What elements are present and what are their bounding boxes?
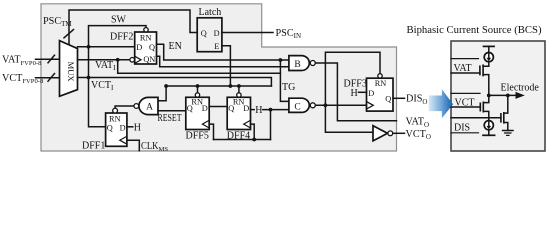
wire VAT_I branch to TG xyxy=(118,60,281,73)
wire VAT input xyxy=(36,58,60,60)
wire riser to DFF5 RN bubble xyxy=(197,86,199,93)
wire DFF5 clock drop xyxy=(209,124,213,139)
wire DFF5.D to DFF4.Q xyxy=(209,106,227,108)
bus slash on PSC_TM xyxy=(64,30,74,38)
bus slash VCT xyxy=(48,74,55,82)
bus slash VAT xyxy=(48,55,55,63)
ground symbol xyxy=(503,131,513,136)
svg-text:Q: Q xyxy=(107,124,113,133)
svg-text:RN: RN xyxy=(375,79,387,88)
wire H riser to clock row xyxy=(270,110,272,140)
node electrode junction (DIS drain) xyxy=(506,94,510,98)
svg-text:VCTI: VCTI xyxy=(91,80,114,92)
svg-text:VCTFVP0-8: VCTFVP0-8 xyxy=(2,73,44,85)
blue arrow xyxy=(429,89,453,118)
wire VAT_I (MUX to DFF2 clock) xyxy=(78,59,131,61)
svg-text:QN: QN xyxy=(143,55,155,64)
mux U-MUX xyxy=(60,41,78,97)
svg-text:DFF1: DFF1 xyxy=(82,141,105,152)
port box DIS xyxy=(451,117,501,119)
wire PSC vertical down to DFF1 Q xyxy=(89,47,106,127)
node junction H row xyxy=(269,108,273,112)
node junction DFF4 RN xyxy=(237,84,241,88)
svg-text:D: D xyxy=(243,104,249,113)
svg-text:VAT: VAT xyxy=(454,63,472,74)
current source I1 (top) xyxy=(484,46,495,61)
node junction C output xyxy=(324,103,328,107)
wire electrode node row xyxy=(489,94,517,96)
svg-text:C: C xyxy=(294,102,300,112)
wire DFF3 Q to DIS_O xyxy=(393,97,405,99)
svg-text:Biphasic Current Source (BCS): Biphasic Current Source (BCS) xyxy=(407,25,542,36)
wire DFF4.D to H to gate C lower input xyxy=(251,109,255,111)
svg-text:TG: TG xyxy=(282,82,295,93)
wire PSC_IN (latch D) xyxy=(222,32,273,34)
svg-text:MUX: MUX xyxy=(66,62,76,83)
flip-flop DFF5 xyxy=(186,93,209,130)
svg-text:SW: SW xyxy=(111,15,127,26)
node electrode terminal xyxy=(516,92,525,99)
wire TG vertical to gate C xyxy=(280,60,289,101)
transistor M3 (DIS) xyxy=(501,95,508,130)
flip-flop DFF3 xyxy=(367,74,394,111)
wire H to DFF3 D xyxy=(359,91,367,93)
wire VCT_I row xyxy=(78,78,272,87)
wire VCT input xyxy=(36,77,60,79)
svg-text:A: A xyxy=(146,103,153,113)
svg-text:EN: EN xyxy=(169,41,182,52)
node PSC_TM wire (latch Q to MUX select) xyxy=(69,10,198,45)
node junction A riser xyxy=(164,84,168,88)
node junction on VCT_I row xyxy=(87,76,91,80)
svg-text:Q: Q xyxy=(228,104,234,113)
node junction VAT_I xyxy=(116,58,120,62)
wire riser to gate A upper input xyxy=(158,86,166,101)
port box VCT xyxy=(451,92,480,94)
wire A output to DFF1 RN xyxy=(115,106,134,108)
wire clock row DFF5/DFF4 xyxy=(214,139,271,141)
node junction DFF4 clock xyxy=(252,138,256,142)
wire CLK_MS to DFF1 clock xyxy=(127,140,139,151)
wire riser to DFF4 RN bubble xyxy=(238,86,240,93)
latch U-Latch xyxy=(197,18,222,52)
control block enclosure xyxy=(41,4,397,151)
wire QN (DFF2 QN to gate B lower input) xyxy=(157,56,289,67)
node electrode junction xyxy=(487,94,491,98)
svg-text:Q: Q xyxy=(187,104,193,113)
transistor M2 (VCT) xyxy=(480,95,489,120)
svg-text:DFF5: DFF5 xyxy=(186,131,209,142)
svg-text:DIS: DIS xyxy=(454,123,470,134)
wire A lower input from DFF5 Q xyxy=(158,110,186,112)
svg-text:VATI: VATI xyxy=(95,60,116,72)
wire DFF1 D to H xyxy=(127,126,133,128)
gate B (NAND) xyxy=(289,56,315,71)
svg-text:VATO: VATO xyxy=(406,117,430,129)
svg-text:PSCIN: PSCIN xyxy=(276,28,302,40)
svg-text:DISO: DISO xyxy=(406,94,427,106)
wire RESET row xyxy=(166,85,271,87)
wire EN (DFF2 Q to gate B upper input) xyxy=(157,44,289,60)
svg-text:Q: Q xyxy=(201,29,207,38)
node junction TG/EN xyxy=(279,58,283,62)
svg-text:VCTO: VCTO xyxy=(406,129,431,141)
BCS block enclosure xyxy=(451,41,545,151)
wire DFF2 D row (from MUX corner to DFF2.D) xyxy=(78,46,135,48)
svg-text:H: H xyxy=(134,122,141,133)
svg-text:H: H xyxy=(255,105,262,116)
svg-text:D: D xyxy=(136,43,142,52)
flip-flop DFF2 xyxy=(130,28,157,65)
node junction E riser xyxy=(229,84,233,88)
svg-text:VCT: VCT xyxy=(455,97,475,108)
svg-text:VATFVP0-8: VATFVP0-8 xyxy=(2,55,42,67)
current source I2 (bottom) xyxy=(483,121,495,136)
node junction DFF5 RN xyxy=(196,84,200,88)
wire C output loop to DFF3 RN xyxy=(325,52,380,105)
gate C (NAND) xyxy=(289,98,315,112)
inverter (VCT_O) xyxy=(373,126,393,141)
svg-text:Electrode: Electrode xyxy=(501,83,540,94)
svg-text:D: D xyxy=(202,104,208,113)
svg-text:E: E xyxy=(214,42,219,51)
wire H row to gate C xyxy=(263,109,289,111)
svg-text:D: D xyxy=(214,29,220,38)
svg-text:Latch: Latch xyxy=(199,7,222,18)
svg-text:RN: RN xyxy=(140,34,152,43)
svg-text:RESET: RESET xyxy=(158,113,182,124)
wire E to RESET row xyxy=(222,46,231,86)
svg-text:RN: RN xyxy=(109,114,121,123)
port box VAT xyxy=(451,58,479,60)
flip-flop DFF4 xyxy=(227,93,250,130)
wire DFF4 clock drop xyxy=(251,124,255,139)
svg-text:D: D xyxy=(120,124,126,133)
wire C output to DFF3 clock xyxy=(315,104,366,106)
wire inverter out to VCT_O xyxy=(393,132,405,134)
wire SW loop (D row to DFF2 RN) xyxy=(89,26,147,47)
node junction on D row xyxy=(87,45,91,49)
transistor M1 (VAT) xyxy=(480,62,489,96)
wire B output to VAT_O xyxy=(315,63,396,121)
wire C output down to inverter xyxy=(325,105,373,132)
svg-text:B: B xyxy=(294,60,300,70)
svg-text:DFF2: DFF2 xyxy=(110,31,133,42)
svg-text:H: H xyxy=(351,88,358,99)
svg-text:D: D xyxy=(368,89,374,98)
gate A (left-facing NAND) xyxy=(134,97,158,114)
flip-flop DFF1 xyxy=(106,108,127,146)
svg-text:Q: Q xyxy=(385,94,391,103)
svg-text:Q: Q xyxy=(149,43,155,52)
